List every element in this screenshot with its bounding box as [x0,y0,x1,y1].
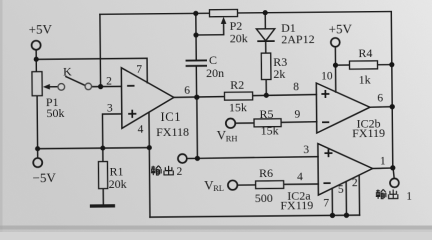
svg-text:RH: RH [226,133,238,143]
svg-text:10: 10 [321,70,333,82]
svg-text:20n: 20n [206,66,224,80]
svg-text:1: 1 [406,191,412,203]
svg-text:+5V: +5V [29,22,53,37]
svg-text:2: 2 [176,166,182,178]
svg-text:4: 4 [138,124,144,136]
svg-text:8: 8 [293,81,299,93]
svg-text:2k: 2k [273,67,285,81]
svg-text:1k: 1k [359,73,371,87]
svg-text:1: 1 [380,156,386,168]
svg-text:7: 7 [323,197,329,209]
svg-text:−5V: −5V [33,170,57,185]
svg-text:R6: R6 [259,166,273,180]
svg-text:9: 9 [294,109,300,121]
svg-text:R5: R5 [259,107,273,121]
svg-text:6: 6 [184,85,190,97]
svg-text:FX119: FX119 [280,198,313,212]
svg-text:4: 4 [297,171,303,183]
svg-text:R2: R2 [230,78,244,92]
svg-text:RL: RL [213,183,224,193]
svg-text:FX119: FX119 [352,126,385,140]
svg-text:15k: 15k [261,123,279,137]
svg-text:15k: 15k [229,100,247,114]
svg-text:IC1: IC1 [160,110,181,124]
svg-text:+5V: +5V [329,21,353,36]
svg-text:5: 5 [338,184,344,196]
svg-text:2: 2 [106,76,112,88]
svg-text:7: 7 [136,64,142,76]
svg-text:20k: 20k [109,177,127,191]
svg-text:2AP12: 2AP12 [281,32,314,46]
svg-text:K: K [63,64,72,78]
svg-text:C: C [209,53,217,67]
svg-text:6: 6 [377,93,383,105]
svg-text:3: 3 [107,102,113,114]
svg-text:FX118: FX118 [156,125,189,139]
svg-text:500: 500 [255,191,273,205]
svg-text:20k: 20k [230,31,248,45]
svg-text:3: 3 [303,144,309,156]
svg-text:R4: R4 [358,46,372,60]
svg-text:50k: 50k [46,106,64,120]
svg-text:2: 2 [352,177,358,189]
